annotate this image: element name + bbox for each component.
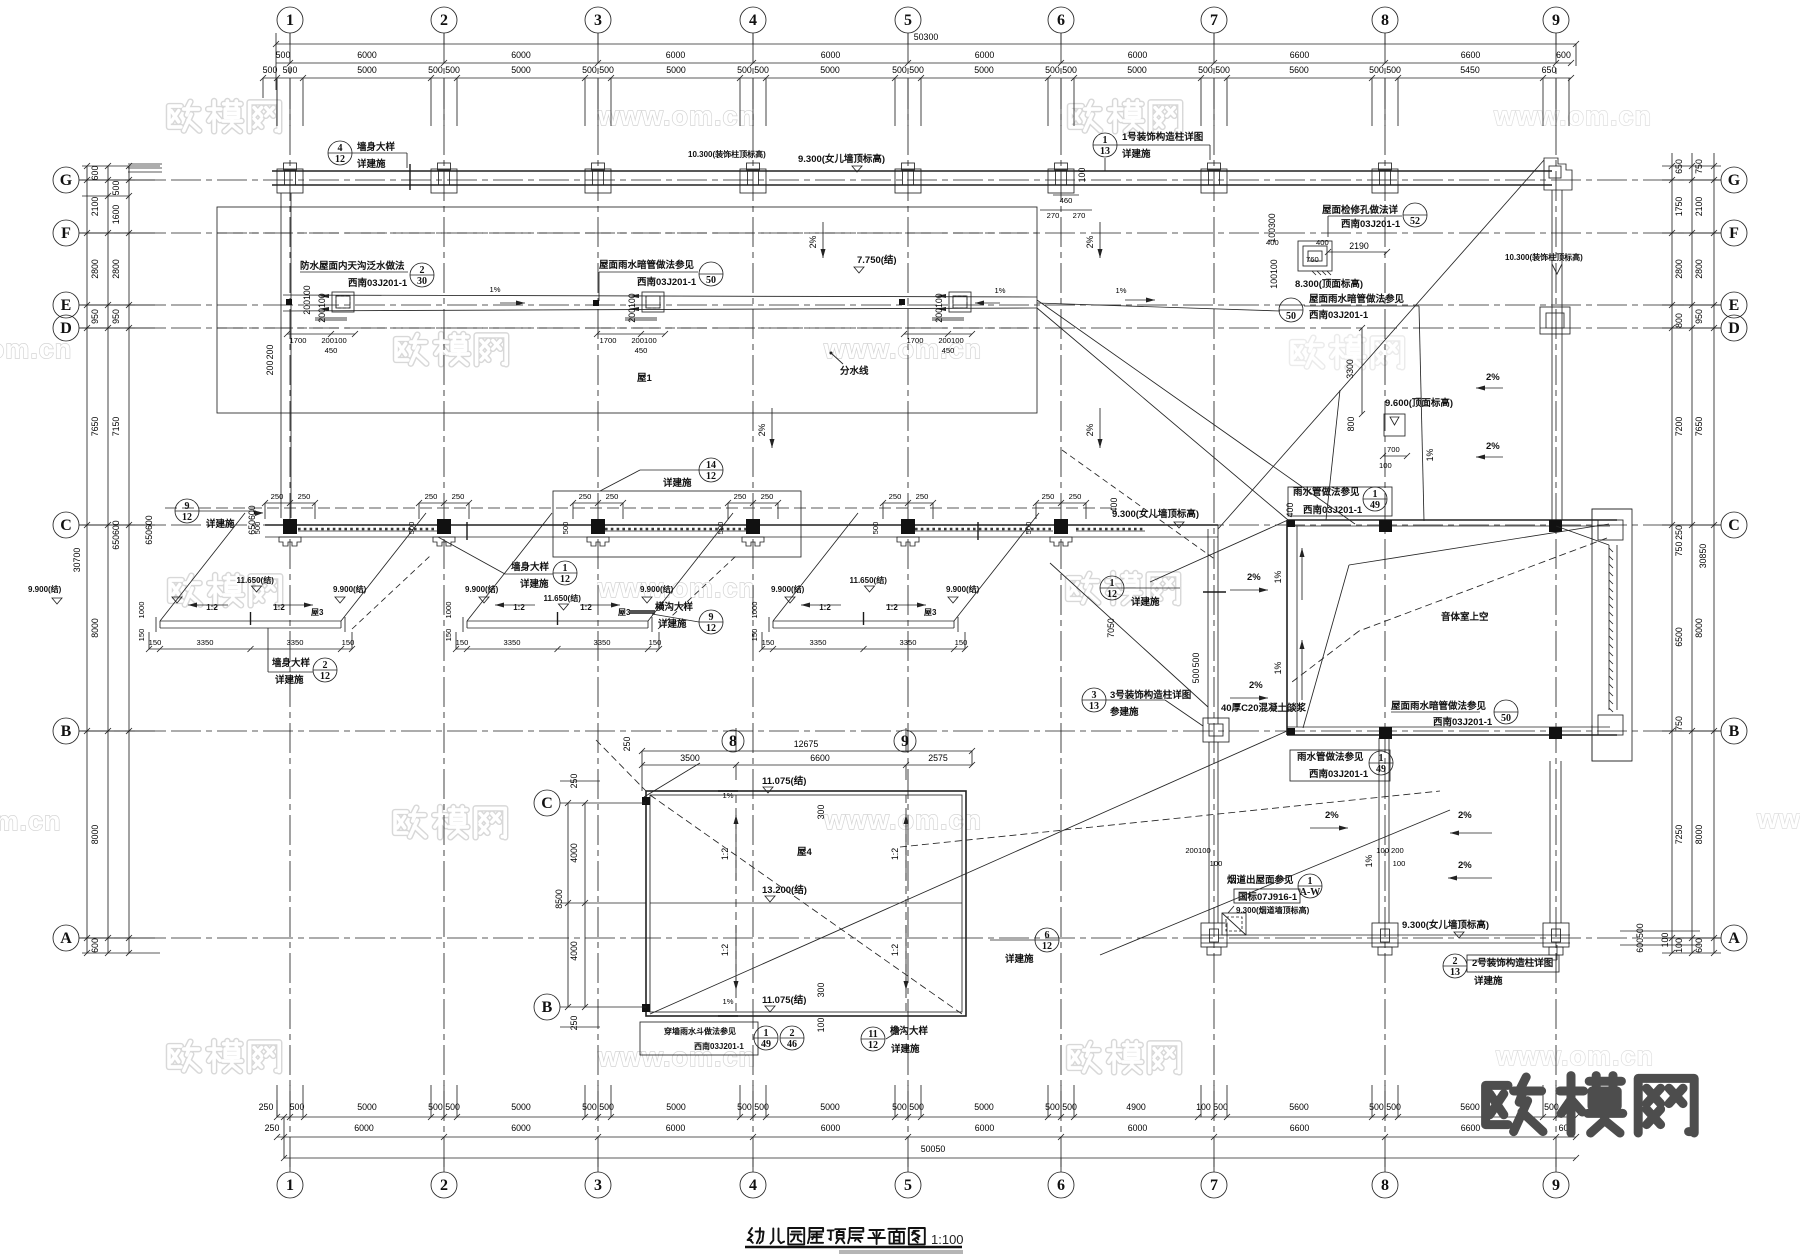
svg-text:52: 52: [1410, 216, 1420, 227]
svg-text:5000: 5000: [820, 65, 840, 75]
svg-text:8000: 8000: [1694, 618, 1704, 638]
svg-text:5000: 5000: [511, 1102, 531, 1112]
svg-text:C: C: [1728, 517, 1740, 534]
1/12 annotation: [1100, 576, 1124, 600]
svg-text:5600: 5600: [1460, 1102, 1480, 1112]
svg-text:50: 50: [1286, 311, 1296, 322]
svg-text:150: 150: [649, 638, 662, 647]
C row parapet dashed: [165, 507, 1115, 509]
svg-text:1: 1: [1110, 578, 1115, 589]
svg-text:300: 300: [816, 805, 826, 820]
svg-text:100: 100: [1379, 461, 1392, 470]
svg-text:西南03J201-1: 西南03J201-1: [1433, 716, 1493, 728]
svg-text:150: 150: [149, 638, 162, 647]
svg-text:9.900(结): 9.900(结): [640, 584, 674, 594]
svg-text:5: 5: [904, 1177, 912, 1194]
svg-text:2%: 2%: [1458, 810, 1472, 821]
svg-text:1%: 1%: [995, 286, 1006, 295]
svg-text:详建施: 详建施: [275, 674, 304, 686]
svg-text:西南03J201-1: 西南03J201-1: [1309, 768, 1369, 780]
svg-text:5000: 5000: [357, 1102, 377, 1112]
svg-text:500: 500: [111, 181, 121, 196]
svg-text:2%: 2%: [1486, 372, 1500, 383]
svg-text:3350: 3350: [197, 638, 214, 647]
svg-text:5: 5: [904, 12, 912, 29]
svg-text:14: 14: [706, 460, 716, 471]
svg-text:8500: 8500: [554, 889, 564, 909]
svg-text:11.075(结): 11.075(结): [762, 775, 806, 787]
roof4 left dim chain: [567, 803, 569, 1007]
svg-text:150: 150: [342, 638, 355, 647]
svg-text:2: 2: [440, 1177, 448, 1194]
svg-text:40厚C20混凝土燄浆: 40厚C20混凝土燄浆: [1221, 702, 1306, 714]
C row wall: [265, 524, 1218, 526]
svg-text:100: 100: [1393, 859, 1406, 868]
svg-text:1700: 1700: [600, 336, 617, 345]
svg-text:音体室上空: 音体室上空: [1441, 611, 1489, 623]
svg-text:墙身大样: 墙身大样: [511, 561, 550, 573]
svg-text:3350: 3350: [810, 638, 827, 647]
svg-text:11.075(结): 11.075(结): [762, 994, 806, 1006]
grid9 corner pilaster: [1544, 158, 1572, 190]
svg-text:2575: 2575: [928, 753, 948, 763]
roof1 boundary: [217, 207, 1037, 413]
svg-text:250: 250: [606, 492, 619, 501]
svg-text:2100: 2100: [90, 197, 100, 217]
svg-text:www.om.cn: www.om.cn: [823, 805, 982, 835]
svg-text:1%: 1%: [1364, 854, 1374, 867]
svg-text:C: C: [60, 517, 72, 534]
svg-text:450: 450: [635, 346, 648, 355]
svg-text:100300: 100300: [1267, 213, 1277, 242]
svg-text:屋4: 屋4: [797, 847, 813, 858]
svg-text:A-W: A-W: [1300, 887, 1321, 898]
svg-text:www.om.cn: www.om.cn: [1495, 1041, 1654, 1071]
svg-text:4: 4: [338, 143, 343, 154]
svg-text:2%: 2%: [1085, 423, 1095, 436]
svg-text:3: 3: [1092, 690, 1097, 701]
svg-text:西南03J201-1: 西南03J201-1: [348, 277, 408, 289]
grid bubbles top/bottom: [289, 33, 291, 44]
logo 欧模网: [1486, 1077, 1543, 1132]
svg-text:600: 600: [1694, 938, 1704, 953]
svg-text:详建施: 详建施: [206, 518, 235, 530]
svg-text:6600: 6600: [1290, 50, 1310, 60]
break ticks on C band: [466, 522, 468, 540]
svg-text:详建施: 详建施: [1474, 975, 1503, 987]
svg-text:8: 8: [1381, 12, 1389, 29]
svg-text:6000: 6000: [975, 1123, 995, 1133]
svg-text:6000: 6000: [354, 1123, 374, 1133]
svg-text:1: 1: [1308, 876, 1313, 887]
svg-text:6000: 6000: [357, 50, 377, 60]
svg-text:250: 250: [734, 492, 747, 501]
svg-text:200100: 200100: [631, 336, 656, 345]
svg-text:详建施: 详建施: [1131, 596, 1160, 608]
svg-text:100: 100: [1210, 859, 1223, 868]
svg-text:A: A: [1728, 930, 1740, 947]
svg-text:12: 12: [868, 1040, 878, 1051]
svg-text:10.300(装饰柱顶标高): 10.300(装饰柱顶标高): [1505, 252, 1583, 262]
svg-text:2800: 2800: [1674, 259, 1684, 279]
svg-text:50050: 50050: [921, 1144, 946, 1154]
svg-text:4000: 4000: [569, 843, 579, 863]
svg-text:250: 250: [916, 492, 929, 501]
svg-text:5450: 5450: [1460, 65, 1480, 75]
svg-text:2%: 2%: [1249, 680, 1263, 691]
svg-text:13.200(结): 13.200(结): [762, 884, 807, 896]
roof eave at 160: [160, 620, 341, 622]
svg-text:5000: 5000: [357, 65, 377, 75]
svg-text:750: 750: [1674, 542, 1684, 557]
svg-text:屋3: 屋3: [618, 607, 631, 617]
dashed diagonals between roofs: [352, 556, 430, 629]
svg-text:6: 6: [1057, 12, 1065, 29]
svg-text:5000: 5000: [974, 65, 994, 75]
svg-text:www.om.cn: www.om.cn: [1493, 101, 1652, 131]
svg-text:2800: 2800: [90, 259, 100, 279]
svg-text:国标07J916-1: 国标07J916-1: [1238, 891, 1298, 903]
svg-text:5000: 5000: [666, 1102, 686, 1112]
svg-text:12: 12: [706, 471, 716, 482]
svg-text:12: 12: [706, 623, 716, 634]
svg-text:46: 46: [787, 1039, 797, 1050]
svg-text:F: F: [1729, 225, 1739, 242]
svg-text:200: 200: [265, 345, 275, 360]
svg-text:2: 2: [790, 1028, 795, 1039]
svg-text:4900: 4900: [1126, 1102, 1146, 1112]
svg-text:D: D: [60, 320, 72, 337]
svg-text:30850: 30850: [1698, 544, 1708, 569]
svg-text:1: 1: [286, 12, 294, 29]
mid pilaster right wall: [1540, 307, 1570, 334]
svg-text:500 500: 500 500: [428, 65, 460, 75]
svg-text:3500: 3500: [680, 753, 700, 763]
svg-text:3: 3: [594, 1177, 602, 1194]
svg-text:1:2: 1:2: [890, 848, 900, 860]
svg-text:2%: 2%: [1325, 810, 1339, 821]
svg-text:1700: 1700: [290, 336, 307, 345]
svg-text:墙身大样: 墙身大样: [272, 657, 311, 669]
svg-text:500: 500: [561, 522, 570, 535]
svg-text:5000: 5000: [666, 65, 686, 75]
svg-text:12675: 12675: [794, 739, 819, 749]
long dashed diagonal roof4: [596, 740, 646, 791]
svg-text:11.650(结): 11.650(结): [850, 575, 888, 585]
svg-text:750: 750: [1694, 159, 1704, 174]
svg-text:7650: 7650: [1694, 417, 1704, 437]
svg-text:2: 2: [440, 12, 448, 29]
hatch detail rects: [1298, 241, 1332, 271]
long diagonal from grid9 corner: [1218, 160, 1544, 529]
svg-text:500 500: 500 500: [892, 65, 924, 75]
svg-text:9.300(女儿墙顶标高): 9.300(女儿墙顶标高): [1112, 508, 1199, 520]
svg-text:8000: 8000: [1694, 825, 1704, 845]
cross gutter bar: [630, 612, 655, 614]
svg-text:6600: 6600: [810, 753, 830, 763]
svg-text:250: 250: [569, 1016, 579, 1031]
roof4 dim rows: [642, 750, 972, 752]
svg-text:8: 8: [729, 733, 737, 750]
svg-text:分水线: 分水线: [840, 365, 869, 377]
svg-text:7200: 7200: [1674, 417, 1684, 437]
right end witness A row: [1620, 930, 1700, 932]
1号 annotation: [1093, 133, 1117, 157]
svg-text:烟道出屋面参见: 烟道出屋面参见: [1227, 874, 1294, 886]
svg-text:1%: 1%: [723, 997, 734, 1006]
svg-text:1%: 1%: [1273, 570, 1283, 583]
svg-text:8: 8: [1381, 1177, 1389, 1194]
svg-text:200100: 200100: [317, 293, 327, 322]
right dimension chains: [1671, 153, 1673, 953]
svg-text:250: 250: [889, 492, 902, 501]
svg-text:100100: 100100: [1269, 259, 1279, 288]
svg-text:200: 200: [265, 361, 275, 376]
svg-text:防水屋面内天沟泛水做法: 防水屋面内天沟泛水做法: [300, 260, 405, 272]
svg-text:1:2: 1:2: [206, 603, 218, 612]
svg-text:2%: 2%: [1247, 572, 1261, 583]
svg-text:6000: 6000: [821, 50, 841, 60]
svg-text:150: 150: [444, 629, 453, 642]
svg-text:100: 100: [1077, 168, 1087, 183]
svg-text:7050: 7050: [1106, 618, 1116, 638]
svg-text:3350: 3350: [900, 638, 917, 647]
svg-text:5000: 5000: [1127, 65, 1147, 75]
svg-text:1700: 1700: [907, 336, 924, 345]
svg-text:2: 2: [420, 265, 425, 276]
svg-text:1%: 1%: [1273, 661, 1283, 674]
svg-text:500: 500: [1191, 653, 1201, 668]
grid1 left wall: [280, 193, 282, 518]
svg-text:49: 49: [1370, 500, 1380, 511]
leaders from gutter to right building: [1037, 300, 1355, 524]
svg-text:12: 12: [1042, 941, 1052, 952]
E row gutter: [283, 295, 1037, 297]
svg-text:7: 7: [1210, 12, 1218, 29]
svg-text:760: 760: [1306, 255, 1319, 264]
svg-text:详建施: 详建施: [1005, 953, 1034, 965]
svg-text:1:2: 1:2: [720, 848, 730, 860]
svg-text:1号装饰构造柱详图: 1号装饰构造柱详图: [1122, 131, 1203, 143]
svg-text:250: 250: [298, 492, 311, 501]
svg-text:详建施: 详建施: [663, 477, 692, 489]
svg-text:250: 250: [1069, 492, 1082, 501]
svg-text:2800: 2800: [1694, 259, 1704, 279]
svg-text:2190: 2190: [1349, 241, 1369, 251]
svg-text:详建施: 详建施: [658, 618, 687, 630]
A row wall band: [1201, 934, 1570, 936]
svg-text:13: 13: [1450, 967, 1460, 978]
scallop strips: [298, 530, 437, 532]
svg-text:屋面雨水暗管做法参见: 屋面雨水暗管做法参见: [599, 259, 695, 271]
svg-text:1: 1: [563, 563, 568, 574]
svg-text:3号装饰构造柱详图: 3号装饰构造柱详图: [1110, 689, 1191, 701]
svg-text:屋1: 屋1: [637, 373, 653, 384]
svg-text:500: 500: [290, 1102, 305, 1112]
svg-text:穿墙雨水斗做法参见: 穿墙雨水斗做法参见: [664, 1026, 736, 1036]
9/12 annotation left: [175, 499, 199, 523]
svg-text:950: 950: [90, 309, 100, 324]
svg-text:雨水管做法参见: 雨水管做法参见: [1297, 751, 1364, 763]
svg-text:屋面雨水暗管做法参见: 屋面雨水暗管做法参见: [1391, 700, 1487, 712]
svg-text:9.900(结): 9.900(结): [771, 584, 805, 594]
right decorative wall: [1592, 509, 1632, 761]
roof4 corner black squares: [642, 797, 650, 805]
black columns on C row: [283, 519, 297, 534]
svg-text:屋3: 屋3: [311, 607, 324, 617]
svg-text:2%: 2%: [1085, 235, 1095, 248]
svg-text:www.om.cn: www.om.cn: [597, 101, 756, 131]
svg-text:200100: 200100: [321, 336, 346, 345]
svg-text:A: A: [60, 930, 72, 947]
svg-text:950: 950: [111, 309, 121, 324]
svg-text:800: 800: [1674, 313, 1684, 328]
svg-text:650600: 650600: [247, 505, 257, 534]
6/12 annotation bottom: [1035, 928, 1059, 952]
svg-text:西南03J201-1: 西南03J201-1: [1303, 504, 1363, 516]
svg-text:200100: 200100: [938, 336, 963, 345]
svg-text:500 500: 500 500: [582, 65, 614, 75]
leader corner diag: [644, 763, 700, 797]
svg-text:1:2: 1:2: [513, 603, 525, 612]
svg-text:250: 250: [579, 492, 592, 501]
4/12 annotation: [328, 141, 352, 165]
black columns right building: [1379, 520, 1392, 532]
svg-text:9.900(结): 9.900(结): [946, 584, 980, 594]
svg-text:250: 250: [271, 492, 284, 501]
svg-text:150: 150: [456, 638, 469, 647]
svg-text:30: 30: [417, 276, 427, 287]
svg-text:50: 50: [1501, 713, 1511, 724]
svg-text:2号装饰构造柱详图: 2号装饰构造柱详图: [1472, 957, 1553, 969]
svg-text:250: 250: [425, 492, 438, 501]
svg-text:750: 750: [1674, 716, 1684, 731]
svg-text:450: 450: [942, 346, 955, 355]
svg-text:50300: 50300: [914, 32, 939, 42]
svg-text:E: E: [61, 297, 72, 314]
long solid diagonal S1: [650, 731, 1287, 1014]
right building walls: [1287, 519, 1617, 521]
svg-text:B: B: [542, 999, 553, 1016]
svg-text:200100: 200100: [934, 293, 944, 322]
roof eave at 773: [773, 620, 954, 622]
title: [748, 1228, 764, 1243]
svg-text:墙身大样: 墙身大样: [357, 141, 396, 153]
svg-text:700: 700: [1387, 445, 1400, 454]
svg-text:1750: 1750: [1674, 197, 1684, 217]
svg-text:2%: 2%: [1458, 860, 1472, 871]
svg-text:1000: 1000: [444, 602, 453, 619]
svg-text:3: 3: [594, 12, 602, 29]
pilasters on A row: [1201, 923, 1227, 947]
svg-text:7650: 7650: [90, 417, 100, 437]
roof eave at 467: [467, 620, 648, 622]
svg-text:1000: 1000: [137, 602, 146, 619]
svg-text:50: 50: [706, 275, 716, 286]
roof4 outline: [646, 791, 966, 1016]
svg-text:1: 1: [286, 1177, 294, 1194]
svg-text:1:2: 1:2: [886, 603, 898, 612]
svg-text:9: 9: [901, 733, 909, 750]
svg-text:650: 650: [1674, 159, 1684, 174]
svg-text:m.cn: m.cn: [0, 806, 62, 836]
svg-text:500: 500: [263, 65, 278, 75]
svg-text:270: 270: [1047, 211, 1060, 220]
svg-text:500 500: 500 500: [737, 65, 769, 75]
svg-text:6500: 6500: [1674, 627, 1684, 647]
svg-text:5600: 5600: [1289, 1102, 1309, 1112]
svg-text:1%: 1%: [1116, 286, 1127, 295]
svg-text:详建施: 详建施: [1122, 148, 1151, 160]
svg-text:12: 12: [335, 154, 345, 165]
250 dims above columns: [265, 502, 315, 504]
svg-text:6000: 6000: [666, 50, 686, 60]
svg-text:2: 2: [323, 660, 328, 671]
svg-text:10.300(装饰柱顶标高): 10.300(装饰柱顶标高): [688, 149, 766, 159]
svg-text:1%: 1%: [490, 285, 501, 294]
svg-text:2%: 2%: [757, 423, 767, 436]
svg-text:600: 600: [1556, 50, 1571, 60]
svg-text:500 500: 500 500: [1045, 65, 1077, 75]
svg-text:11: 11: [868, 1029, 877, 1040]
svg-text:12: 12: [1107, 589, 1117, 600]
svg-text:250: 250: [761, 492, 774, 501]
svg-text:250: 250: [265, 1123, 280, 1133]
svg-text:6000: 6000: [666, 1123, 686, 1133]
wall break tick G row: [409, 164, 411, 190]
gutter drains: [332, 292, 354, 312]
svg-text:600500: 600500: [1635, 923, 1645, 952]
svg-text:9.900(结): 9.900(结): [333, 584, 367, 594]
svg-text:9.900(结): 9.900(结): [28, 584, 62, 594]
svg-text:12: 12: [182, 512, 192, 523]
svg-text:11.650(结): 11.650(结): [544, 593, 582, 603]
svg-text:100: 100: [816, 1018, 826, 1033]
svg-text:1%: 1%: [723, 791, 734, 800]
svg-text:G: G: [1728, 172, 1741, 189]
svg-text:4: 4: [749, 12, 757, 29]
svg-text:5000: 5000: [974, 1102, 994, 1112]
svg-text:1:2: 1:2: [819, 603, 831, 612]
svg-text:6000: 6000: [1128, 1123, 1148, 1133]
svg-text:49: 49: [761, 1039, 771, 1050]
svg-text:12: 12: [320, 671, 330, 682]
svg-text:9.600(顶面标高): 9.600(顶面标高): [1385, 397, 1453, 409]
svg-text:2%: 2%: [1486, 441, 1500, 452]
svg-text:3350: 3350: [594, 638, 611, 647]
svg-text:屋3: 屋3: [924, 607, 937, 617]
svg-text:9.300(女儿墙顶标高): 9.300(女儿墙顶标高): [798, 153, 885, 165]
svg-text:8000: 8000: [90, 825, 100, 845]
svg-text:500: 500: [276, 50, 291, 60]
svg-text:150: 150: [137, 629, 146, 642]
svg-text:1:2: 1:2: [273, 603, 285, 612]
F and D dashed inside: [217, 232, 1037, 234]
svg-text:450: 450: [325, 346, 338, 355]
svg-text:49: 49: [1376, 764, 1386, 775]
svg-text:om.cn: om.cn: [0, 334, 72, 364]
svg-text:950: 950: [1694, 309, 1704, 324]
svg-text:1: 1: [1373, 489, 1378, 500]
svg-text:500: 500: [871, 522, 880, 535]
svg-text:150: 150: [762, 638, 775, 647]
svg-text:1000: 1000: [750, 602, 759, 619]
svg-text:600: 600: [90, 938, 100, 953]
interior diagonals: [1349, 524, 1609, 565]
annotations right building: [1288, 487, 1392, 516]
top dimension chains: [276, 43, 1576, 45]
svg-text:460: 460: [1060, 196, 1073, 205]
